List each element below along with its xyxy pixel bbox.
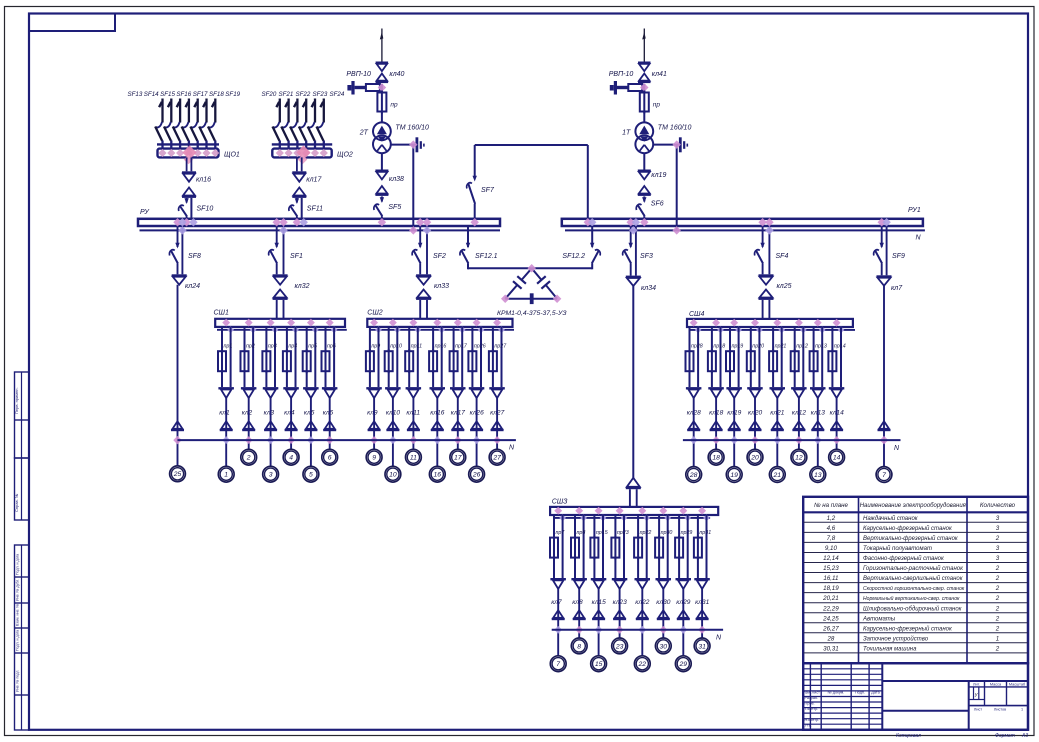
label пр16 [435,344,447,350]
svg-text:7,8: 7,8 [827,535,836,542]
cable termination кл3 upper [263,387,279,398]
svg-text:пр13: пр13 [815,344,827,350]
fuse пр30 [655,536,663,578]
cable termination кл27 upper [489,387,505,398]
svg-text:у: у [974,692,978,698]
outgoing feeder breaker 6 of ЩО1 [199,99,206,149]
cable termination кл1 lower [220,421,233,431]
svg-text:3: 3 [996,545,1000,552]
svg-text:пр17: пр17 [455,344,468,350]
svg-text:7: 7 [882,472,886,479]
wire cable кл1 [225,398,227,467]
svg-text:1: 1 [996,635,999,642]
cable termination кл20 lower [749,421,762,431]
motor 8 [571,638,587,654]
neutral line N right section [683,439,901,441]
label кл10 [386,410,400,417]
cable termination кл11 lower [407,421,420,431]
svg-text:Н.контр.: Н.контр. [805,718,820,722]
svg-text:26,27: 26,27 [822,625,839,632]
junction node neutral [409,140,417,234]
fuse пр23 [611,536,619,578]
svg-text:пр: пр [653,102,661,109]
svg-text:SF2: SF2 [433,253,446,260]
label кл16 [196,177,211,184]
cable termination кл31 upper [694,578,710,589]
svg-text:3: 3 [269,472,273,479]
junction nodes bus [758,218,773,235]
label N bottom [716,635,722,642]
cable termination кл23 upper [612,578,628,589]
label кл16 [430,410,444,417]
svg-text:РВП-10: РВП-10 [346,71,371,78]
junction node кл12 on N line [795,436,803,444]
fuse пр17 [450,349,458,387]
fuse пр27 [489,349,497,387]
wire fuse to transformer 2Т [381,112,383,123]
wire кл34 into СШ3 [630,489,637,507]
label кл32 [295,283,310,290]
svg-text:Копировал: Копировал [896,733,921,739]
feeder кл1 wires from СШ1 [222,327,231,387]
junction node [640,83,648,91]
outgoing feeder breaker 1 of ЩО2 [273,99,280,149]
junction node кл2 on N line [245,436,253,444]
label кл18 [709,410,723,417]
cable termination кл7 upper [877,275,892,285]
outgoing feeder breaker 5 of ЩО1 [190,99,197,149]
svg-text:пр21: пр21 [775,344,787,350]
svg-text:пр30: пр30 [661,530,673,536]
svg-text:пр28: пр28 [691,344,703,350]
left margin stamp cells upper [14,372,29,520]
wire cable кл17 [457,398,459,450]
motor 28 [686,467,702,483]
motor 7 [550,656,566,672]
label кл40 [389,71,404,78]
svg-text:Лит.: Лит. [973,682,980,686]
svg-text:18,19: 18,19 [823,585,839,592]
wire cable to breaker SF5 [381,196,383,201]
cable termination кл13 lower [811,421,824,431]
svg-text:кл3: кл3 [264,410,275,417]
motor 23 [612,638,628,654]
svg-text:2: 2 [995,575,1000,582]
label пр5 [308,344,317,350]
svg-text:29: 29 [679,661,688,668]
cable termination кл7 upper [550,578,566,589]
motor 6 [322,449,338,465]
label SF7 [481,187,495,194]
cable termination кл29 upper [676,578,692,589]
breaker SF7 [467,176,477,219]
junction node neutral [672,140,680,234]
wire cable кл13 [817,398,819,467]
fuse пр6 [322,349,330,387]
label пр3 [268,344,277,350]
svg-text:21: 21 [773,472,782,479]
junction node кл1 on N line [222,436,230,444]
svg-text:пр22: пр22 [640,530,652,536]
wire SF12.1 drop [467,226,469,247]
outgoing feeder breaker 6 of ЩО2 [317,99,324,149]
section busbar СШ4 second line [689,327,855,334]
label кл33 [434,283,449,290]
svg-text:SF22: SF22 [296,91,311,98]
label кл27 [490,410,504,417]
label N right section [894,445,900,452]
svg-text:Разраб.: Разраб. [805,696,819,700]
cable termination кл14 lower [830,421,843,431]
disconnector RVP-10 [610,81,645,95]
wire cable кл7 [557,588,559,656]
svg-text:Подп.: Подп. [855,691,865,695]
svg-text:2: 2 [246,455,251,462]
motor 20 [747,449,763,465]
fuse пр2 [241,349,249,387]
feeder кл10 wires from СШ2 [389,327,398,387]
label pr [390,102,398,109]
svg-text:Взам. инв. №: Взам. инв. № [16,604,20,626]
label кл29 [676,599,690,606]
svg-text:Дата: Дата [871,691,880,695]
svg-text:1Т: 1Т [622,130,631,137]
svg-text:пр3: пр3 [268,344,277,350]
svg-text:ТМ 160/10: ТМ 160/10 [395,125,429,132]
cable termination кл27 lower [491,421,504,431]
cable termination кл17 lower [451,421,464,431]
svg-text:Подп. и дата: Подп. и дата [16,554,20,575]
junction node bus [293,218,308,226]
svg-text:9: 9 [372,455,376,462]
label ЩО2 [337,152,353,159]
distribution board ЩО2 [272,145,331,164]
junction node кл31 on N line [698,626,706,634]
feeder кл12 wires from СШ4 [795,327,804,387]
wire transformer to cable кл38 [381,153,383,169]
feeder кл26 wires from СШ2 [472,327,481,387]
wire cable кл11 [412,398,414,450]
svg-text:СШ4: СШ4 [689,311,704,318]
cable termination кл10 lower [386,421,399,431]
breaker SF1 [269,243,279,274]
svg-text:SF12.1: SF12.1 [475,253,498,260]
label 1Т [622,130,631,137]
motor 2 [241,449,257,465]
cable termination кл21 upper [770,387,786,398]
wire transformer neutral [390,145,415,231]
wire cable кл19 [733,398,735,467]
motor 11 [406,449,422,465]
label кл19 [727,410,741,417]
equipment specification table [803,497,1028,663]
label пр12 [796,344,808,350]
cable termination кл4 upper [283,387,299,398]
svg-text:2: 2 [995,615,1000,622]
motor 14 [829,449,845,465]
motor 26 [469,466,485,482]
svg-text:СШ2: СШ2 [367,310,382,317]
svg-text:SF1: SF1 [290,253,303,260]
svg-text:SF4: SF4 [776,253,789,260]
svg-text:ЩО2: ЩО2 [337,152,353,159]
motor 10 [385,466,401,482]
cable termination кл32 [273,274,288,300]
cable termination кл20 upper [747,387,763,398]
cable termination кл11 upper [406,387,422,398]
junction node кл15 on N line [595,626,603,634]
wire кл16 double drop [187,157,192,171]
outgoing feeder breaker 2 of ЩО1 [164,99,171,149]
label SF8 [188,253,201,260]
svg-text:пр2: пр2 [246,344,255,350]
svg-text:Перв. примен.: Перв. примен. [14,387,19,414]
cable termination кл18 upper [708,387,724,398]
motor 30 [655,638,671,654]
label кл11 [406,410,420,417]
svg-text:пр23: пр23 [617,530,629,536]
svg-text:ТМ 160/10: ТМ 160/10 [658,125,692,132]
svg-text:2: 2 [995,605,1000,612]
svg-text:пр31: пр31 [699,530,711,536]
incoming supply line кл40 [380,29,384,62]
junction node кл18 on N line [712,436,720,444]
collector line above ЩО1 [157,143,219,145]
svg-text:Вертикально-сверлильный станок: Вертикально-сверлильный станок [863,575,964,582]
svg-text:SF18: SF18 [209,91,224,98]
cable termination кл13 upper [810,387,826,398]
feeder кл17 wires from СШ2 [454,327,463,387]
feeder кл29 wires from СШЗ [679,515,688,578]
cable termination кл6 upper [322,387,338,398]
fuse pr [640,91,649,114]
svg-text:Карусельно-фрезерный станок: Карусельно-фрезерный станок [863,525,953,532]
svg-text:кл41: кл41 [652,71,667,78]
label SF5 [388,204,401,211]
label Формат A3 [995,733,1028,739]
label 2Т [359,130,369,137]
label SF12.2 [562,253,585,260]
svg-text:кл34: кл34 [641,285,656,292]
feeder кл28 wires from СШ4 [690,327,699,387]
label кл23 [613,599,627,606]
svg-text:22: 22 [638,661,647,668]
wire SF12.2 drop [591,226,593,247]
neutral line N left sections [178,439,516,441]
feeder кл5 wires from СШ1 [307,327,316,387]
wire cable кл5 [310,398,312,467]
svg-text:11: 11 [410,455,417,462]
fuse пр31 [694,536,702,578]
svg-text:кл40: кл40 [389,71,404,78]
svg-text:SF21: SF21 [279,91,294,98]
svg-text:пр11: пр11 [411,344,422,350]
fuse пр22 [634,536,642,578]
label кл4 [284,410,295,417]
junction node кл7 on N line [554,626,562,634]
svg-text:3: 3 [996,525,1000,532]
cable termination кл25 [759,274,774,300]
svg-text:13: 13 [814,472,822,479]
fuse пр26 [468,349,476,387]
wire cable кл28 [693,398,695,467]
feeder кл4 wires from СШ1 [287,327,296,387]
svg-text:28: 28 [826,635,834,642]
frame top-left stamp box [29,14,115,32]
wire below cable кл16 [187,198,192,219]
wire cable кл4 [290,398,292,450]
section busbar СШ4 [687,319,853,327]
ground symbol [416,137,425,152]
outgoing feeder breaker 3 of ЩО1 [173,99,180,149]
label ТМ 160/10 [395,125,429,132]
junction node кл27 on N line [493,436,501,444]
svg-text:кл4: кл4 [284,410,295,417]
feeder кл8 wires from СШЗ [575,515,584,578]
cable termination кл41 upper [638,62,651,84]
motor 27 [489,449,505,465]
fuse пр14 [828,349,836,387]
cable termination кл19 [638,170,651,196]
svg-text:кл25: кл25 [777,283,792,290]
motor 5 [303,466,319,482]
cable termination кл15 lower [592,610,605,620]
cable termination кл8 lower [573,610,586,620]
wire bus tie loop [475,145,588,219]
svg-text:КРМ1-0,4-375-37,5-УЗ: КРМ1-0,4-375-37,5-УЗ [497,310,567,317]
svg-text:4,6: 4,6 [827,525,836,532]
svg-text:кл7: кл7 [551,599,562,606]
cable termination кл33 [416,274,431,300]
junction node bus [182,218,197,226]
fuse пр1 [218,349,226,387]
label кл28 [687,410,701,417]
svg-text:SF6: SF6 [651,201,664,208]
svg-text:кл6: кл6 [323,410,334,417]
junction nodes SF3 [626,218,640,235]
svg-text:2: 2 [995,595,1000,602]
svg-text:2Т: 2Т [359,130,369,137]
junction node кл10 on N line [389,436,397,444]
fuse пр8 [571,536,579,578]
svg-text:кл32: кл32 [295,283,310,290]
feeder labels SF13..SF19 [128,91,241,98]
cable termination кл30 lower [657,610,670,620]
svg-text:Горизонтально-расточный станок: Горизонтально-расточный станок [863,565,964,572]
cable termination кл28 upper [686,387,702,398]
svg-text:кл16: кл16 [196,177,211,184]
breaker SF5 [374,197,384,219]
label SF10 [197,206,214,213]
transformer 2Т ТМ 160/10 [373,122,391,153]
junction node bus [378,218,386,226]
svg-text:SF19: SF19 [225,91,240,98]
svg-text:20,21: 20,21 [822,595,838,602]
junction node кл17 on N line [454,436,462,444]
svg-text:17: 17 [454,455,462,462]
svg-text:Т.контр.: Т.контр. [805,707,819,711]
svg-text:пр27: пр27 [494,344,507,350]
label пр28 [691,344,703,350]
motor 9 [366,449,382,465]
fuse пр7 [550,536,558,578]
cable termination кл17 [292,171,306,198]
svg-text:10: 10 [389,472,397,479]
svg-text:7: 7 [556,661,560,668]
svg-text:SF16: SF16 [176,91,191,98]
svg-text:15,23: 15,23 [823,565,839,572]
junction node кл21 on N line [773,436,781,444]
svg-text:25: 25 [173,471,182,478]
motor 25 [170,466,186,482]
svg-text:15: 15 [595,661,603,668]
label пр1 [224,344,233,350]
cable termination кл22 lower [636,610,649,620]
wire cable кл9 [373,398,375,450]
svg-text:Шлифовально-обдирочный станок: Шлифовально-обдирочный станок [863,605,963,612]
wire cable кл23 [619,588,621,638]
wire cable кл8 [578,588,580,638]
svg-text:19: 19 [730,472,738,479]
feeder кл23 wires from СШЗ [615,515,624,578]
label кл41 [652,71,667,78]
svg-text:Нормальный вертикально-свер. с: Нормальный вертикально-свер. станок [863,595,960,602]
label N right bus [916,235,922,242]
svg-text:кл33: кл33 [434,283,449,290]
label пр26 [474,344,486,350]
label пр31 [699,530,711,536]
label пр19 [732,344,744,350]
wire below cable кл17 [297,198,302,219]
label СШЗ [552,498,568,505]
outgoing feeder breaker 1 of ЩО1 [155,99,162,149]
label SF9 [892,253,905,260]
junction node кл4 on N line [287,436,295,444]
cable termination кл10 upper [385,387,401,398]
svg-text:2: 2 [995,535,1000,542]
breaker SF2 [412,243,422,274]
label кл17 [306,177,322,184]
label пр7 [556,530,566,536]
cable termination кл19 lower [728,421,741,431]
fuse пр12 [791,349,799,387]
fuse пр16 [429,349,437,387]
svg-text:кл9: кл9 [367,410,378,417]
wire cable кл15 [598,588,600,656]
fuse пр28 [686,349,694,387]
label SF4 [776,253,789,260]
junction node bus [640,218,648,226]
junction node кл13 on N line [814,436,822,444]
label ЩО1 [224,152,240,159]
svg-text:SF8: SF8 [188,253,201,260]
motor 29 [675,656,691,672]
label кл24 [185,283,200,290]
section busbar СШ1 [215,319,345,327]
feeder кл14 wires from СШ4 [832,327,841,387]
svg-text:пр7: пр7 [556,530,566,536]
cable termination кл29 lower [677,610,690,620]
svg-text:Заточное устройство: Заточное устройство [863,635,929,642]
feeder кл31 wires from СШЗ [698,515,707,578]
junction node кл6 on N line [326,436,334,444]
junction node кл28 on N line [690,436,698,444]
fuse пр13 [810,349,818,387]
svg-text:23: 23 [615,643,624,650]
cable termination кл12 lower [792,421,805,431]
cable termination кл2 upper [241,387,257,398]
svg-text:Скоростной горизонтально-свер.: Скоростной горизонтально-свер. станок [863,585,965,592]
